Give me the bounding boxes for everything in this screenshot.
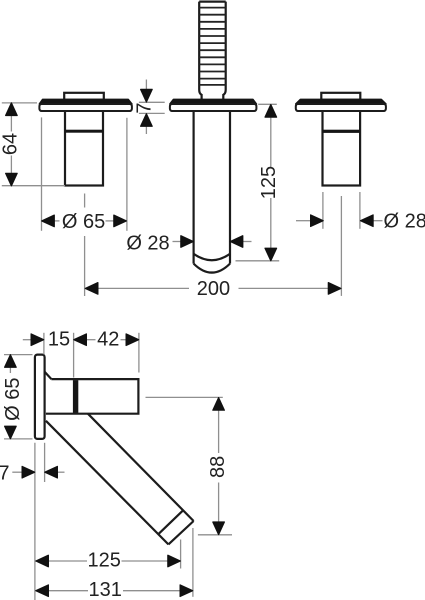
left handle divider stripe bbox=[65, 130, 103, 133]
dim 64: extension lines bbox=[2, 103, 65, 186]
threaded rod (center spout supply shank) bbox=[199, 2, 226, 101]
svg-text:64: 64 bbox=[0, 133, 22, 155]
dim 125 (spout length) bbox=[236, 104, 280, 260]
wall plate (escutcheon side) bbox=[35, 355, 45, 439]
dim Ø28 (center tube) bbox=[173, 241, 252, 243]
svg-text:15: 15 bbox=[48, 329, 70, 351]
dim 7 side (plate thickness) bbox=[12, 443, 64, 600]
dim 200 bbox=[98, 287, 330, 289]
dim 7 (escutcheon thickness, plan view) bbox=[139, 80, 165, 135]
svg-text:88: 88 bbox=[207, 456, 229, 478]
svg-text:Ø 65: Ø 65 bbox=[62, 211, 105, 233]
svg-text:Ø 28: Ø 28 bbox=[384, 210, 425, 232]
dim Ø65 side bbox=[4, 355, 33, 439]
svg-text:Ø 65: Ø 65 bbox=[2, 378, 24, 421]
dim 15 / 42 bbox=[23, 333, 139, 378]
valve body (side) bbox=[46, 379, 138, 414]
dim 64 arrows bbox=[6, 103, 18, 116]
centerline left handle bbox=[84, 194, 86, 297]
right handle escutcheon flange bbox=[296, 99, 386, 111]
svg-text:7: 7 bbox=[0, 463, 10, 485]
body chamfer bbox=[45, 372, 52, 379]
svg-text:Ø 28: Ø 28 bbox=[126, 232, 169, 254]
left handle body bbox=[65, 111, 103, 186]
center spout tube bbox=[194, 111, 230, 273]
center spout escutcheon flange bbox=[170, 99, 257, 111]
dim 125 bottom bbox=[48, 540, 181, 569]
dim Ø28 (right handle) bbox=[296, 192, 383, 229]
right handle divider stripe bbox=[323, 130, 361, 133]
rod thread lines bbox=[199, 8, 226, 85]
svg-text:131: 131 bbox=[89, 579, 122, 600]
right handle body bbox=[323, 111, 361, 186]
dim 131 bbox=[48, 528, 193, 597]
left handle escutcheon flange bbox=[39, 99, 131, 111]
spout tube (45 deg) bbox=[46, 414, 194, 545]
dim Ø65 left: extension lines bbox=[42, 117, 127, 230]
right handle cap bbox=[321, 93, 360, 100]
centerline right handle bbox=[340, 196, 342, 296]
svg-text:200: 200 bbox=[197, 278, 230, 300]
svg-text:125: 125 bbox=[258, 166, 280, 199]
dim Ø65 left arrows bbox=[42, 215, 55, 227]
svg-text:125: 125 bbox=[88, 550, 121, 572]
dim 88 bbox=[146, 397, 233, 534]
left handle cap bbox=[64, 93, 104, 100]
svg-text:7: 7 bbox=[134, 102, 156, 113]
body groove stripe bbox=[73, 380, 78, 413]
svg-text:42: 42 bbox=[97, 329, 119, 351]
